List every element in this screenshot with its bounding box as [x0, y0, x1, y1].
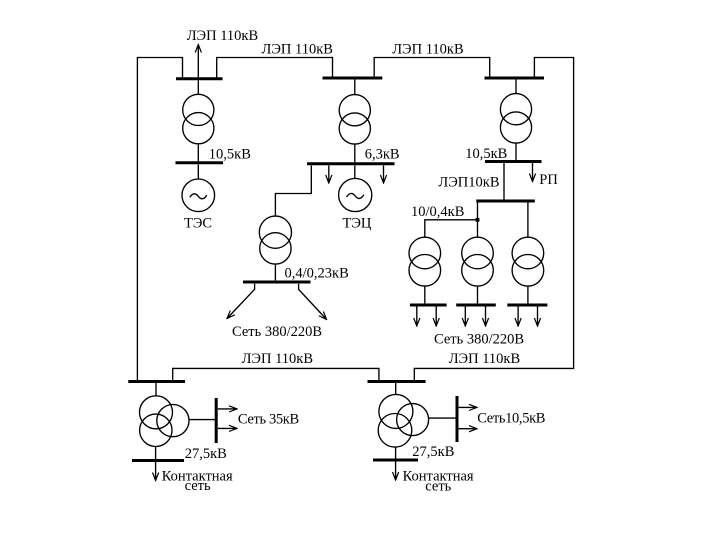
- svg-text:ТЭЦ: ТЭЦ: [343, 216, 372, 232]
- svg-text:27,5кВ: 27,5кВ: [185, 446, 227, 462]
- svg-text:Сеть 35кВ: Сеть 35кВ: [238, 411, 299, 427]
- svg-text:сеть: сеть: [185, 478, 211, 494]
- svg-text:ЛЭП 110кВ: ЛЭП 110кВ: [187, 28, 258, 44]
- svg-text:сеть: сеть: [425, 478, 451, 494]
- svg-text:0,4/0,23кВ: 0,4/0,23кВ: [285, 266, 349, 282]
- svg-text:Сеть 380/220В: Сеть 380/220В: [434, 332, 524, 348]
- svg-text:ЛЭП 110кВ: ЛЭП 110кВ: [262, 42, 333, 58]
- svg-text:ЛЭП10кВ: ЛЭП10кВ: [438, 174, 499, 190]
- svg-text:Сеть 380/220В: Сеть 380/220В: [232, 324, 322, 340]
- svg-text:Сеть10,5кВ: Сеть10,5кВ: [477, 411, 545, 427]
- svg-text:РП: РП: [539, 172, 558, 188]
- svg-text:ЛЭП 110кВ: ЛЭП 110кВ: [242, 351, 313, 367]
- svg-text:10,5кВ: 10,5кВ: [209, 146, 251, 162]
- svg-text:ЛЭП 110кВ: ЛЭП 110кВ: [392, 42, 463, 58]
- svg-text:ЛЭП 110кВ: ЛЭП 110кВ: [449, 351, 520, 367]
- svg-text:27,5кВ: 27,5кВ: [412, 444, 454, 460]
- svg-text:10/0,4кВ: 10/0,4кВ: [411, 204, 464, 220]
- svg-text:10,5кВ: 10,5кВ: [465, 146, 507, 162]
- svg-text:6,3кВ: 6,3кВ: [365, 146, 400, 162]
- svg-text:ТЭС: ТЭС: [184, 216, 212, 232]
